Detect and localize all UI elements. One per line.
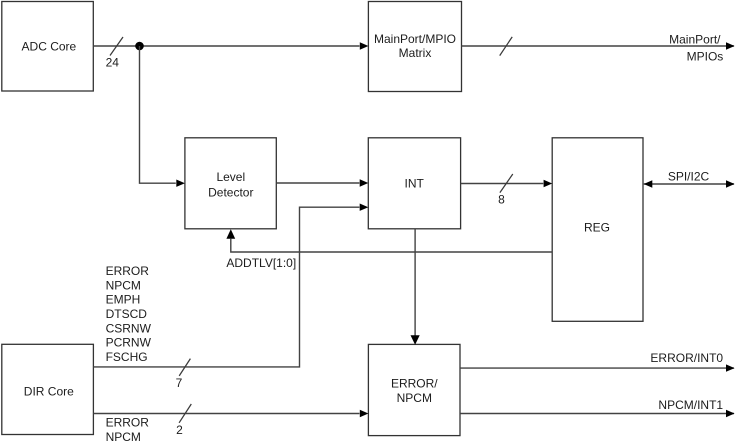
label ERROR NPCM near DIR Core	[106, 415, 150, 443]
block INT	[368, 138, 460, 229]
svg-text:MPIOs: MPIOs	[687, 49, 724, 63]
svg-text:8: 8	[498, 193, 505, 207]
svg-text:ADDTLV[1:0]: ADDTLV[1:0]	[226, 256, 296, 270]
svg-text:EMPH: EMPH	[106, 293, 141, 307]
wire DIR Core 7-bit bus to INT	[93, 204, 368, 367]
svg-text:FSCHG: FSCHG	[106, 350, 148, 364]
svg-text:REG: REG	[584, 220, 610, 234]
svg-text:ERROR/: ERROR/	[391, 377, 438, 391]
wire NPCM/INT1 output	[460, 398, 735, 417]
svg-text:Detector: Detector	[208, 185, 253, 199]
svg-text:DIR Core: DIR Core	[24, 385, 74, 399]
junction dot node 24-bit bus	[135, 42, 144, 51]
svg-text:NPCM: NPCM	[106, 430, 141, 443]
svg-text:Level: Level	[216, 170, 245, 184]
svg-text:MainPort/MPIO: MainPort/MPIO	[374, 32, 456, 46]
label DIR Core signal list	[106, 264, 152, 364]
bus slash 7	[176, 359, 191, 391]
svg-text:ADC Core: ADC Core	[22, 40, 77, 54]
block DIR Core	[2, 344, 94, 434]
bus slash 24	[106, 37, 123, 70]
wire Level Detector to INT	[276, 179, 368, 186]
label MainPort/MPIOs	[669, 33, 723, 64]
wire ADC Core to MainPort/MPIO Matrix	[93, 42, 368, 49]
wire junction down to Level Detector	[140, 46, 185, 187]
svg-text:ERROR/INT0: ERROR/INT0	[650, 351, 723, 365]
wire INT to REG 8-bit bus	[461, 180, 553, 187]
svg-text:CSRNW: CSRNW	[106, 321, 152, 335]
wire INT down to ERROR/NPCM	[411, 229, 420, 345]
wire MainPort/MPIOs output	[462, 42, 735, 49]
wire ERROR/INT0 output	[460, 351, 735, 372]
bus slash MainPort	[500, 37, 513, 56]
svg-text:MainPort/: MainPort/	[669, 33, 721, 47]
wire ADDTLV from REG to Level Detector	[226, 229, 552, 270]
svg-text:INT: INT	[405, 177, 425, 191]
svg-text:SPI/I2C: SPI/I2C	[668, 170, 710, 184]
block MainPort/MPIO Matrix	[368, 2, 461, 92]
block Level Detector	[185, 138, 276, 229]
svg-text:NPCM: NPCM	[397, 391, 432, 405]
svg-text:DTSCD: DTSCD	[106, 307, 148, 321]
svg-text:2: 2	[176, 423, 183, 437]
svg-text:PCRNW: PCRNW	[106, 336, 152, 350]
block ADC Core	[2, 2, 94, 92]
svg-text:ERROR: ERROR	[106, 264, 150, 278]
block REG	[552, 138, 643, 321]
wire SPI/I2C bidirectional	[644, 170, 735, 188]
svg-text:24: 24	[106, 56, 120, 70]
svg-text:NPCM: NPCM	[106, 278, 141, 292]
bus slash 2	[176, 404, 191, 437]
svg-text:Matrix: Matrix	[399, 46, 432, 60]
svg-text:ERROR: ERROR	[106, 415, 150, 429]
block ERROR/NPCM	[368, 344, 460, 435]
wire DIR Core 2-bit bus to ERROR/NPCM	[93, 410, 368, 417]
svg-text:NPCM/INT1: NPCM/INT1	[658, 398, 723, 412]
svg-text:7: 7	[176, 376, 183, 390]
bus slash 8	[498, 174, 513, 207]
